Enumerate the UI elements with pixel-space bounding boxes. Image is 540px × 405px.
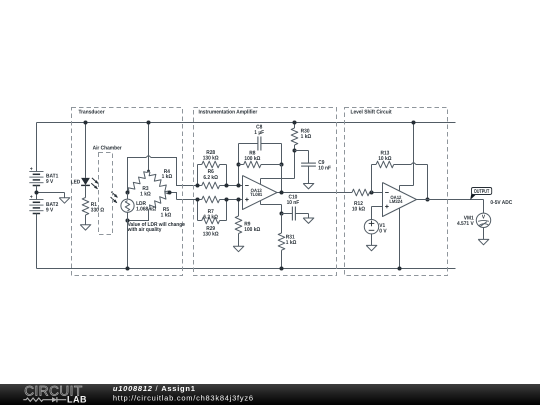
- svg-text:1 µF: 1 µF: [254, 130, 264, 136]
- svg-text:LED: LED: [71, 180, 81, 186]
- svg-text:100 kΩ: 100 kΩ: [244, 156, 261, 162]
- svg-text:http://circuitlab.com/ch83k84j: http://circuitlab.com/ch83k84j3fyz6: [113, 394, 254, 403]
- svg-text:130 kΩ: 130 kΩ: [203, 155, 220, 161]
- svg-text:1 kΩ: 1 kΩ: [162, 174, 173, 180]
- svg-text:+: +: [30, 195, 33, 201]
- svg-text:0 V: 0 V: [379, 229, 387, 235]
- svg-text:LM324: LM324: [389, 199, 402, 205]
- svg-text:Instrumentation Amplifier: Instrumentation Amplifier: [199, 110, 258, 116]
- svg-text:V: V: [482, 215, 486, 221]
- svg-text:0-5V ADC: 0-5V ADC: [490, 200, 512, 206]
- svg-text:1 kΩ: 1 kΩ: [286, 240, 297, 246]
- svg-text:1 kΩ: 1 kΩ: [140, 192, 151, 198]
- svg-text:Transducer: Transducer: [78, 110, 105, 116]
- svg-text:4.571 V: 4.571 V: [457, 221, 474, 227]
- svg-text:9 V: 9 V: [46, 179, 54, 185]
- svg-text:1 kΩ: 1 kΩ: [161, 213, 172, 219]
- svg-text:+: +: [30, 166, 33, 172]
- svg-text:with air quality: with air quality: [127, 227, 163, 233]
- svg-text:6.2 kΩ: 6.2 kΩ: [203, 215, 218, 221]
- svg-text:TL081: TL081: [250, 192, 262, 198]
- svg-text:u1008812 / Assign1: u1008812 / Assign1: [113, 384, 196, 393]
- svg-text:130 kΩ: 130 kΩ: [203, 231, 220, 237]
- svg-text:10 kΩ: 10 kΩ: [378, 156, 392, 162]
- svg-text:Air Chamber: Air Chamber: [93, 146, 123, 152]
- svg-text:1 kΩ: 1 kΩ: [301, 134, 312, 140]
- svg-text:Level Shift Circuit: Level Shift Circuit: [351, 110, 392, 116]
- svg-text:9 V: 9 V: [46, 207, 54, 213]
- svg-text:LAB: LAB: [67, 395, 87, 405]
- svg-text:10 nF: 10 nF: [318, 166, 331, 172]
- svg-text:1.068 kΩ: 1.068 kΩ: [136, 207, 157, 213]
- svg-text:OUTPUT: OUTPUT: [474, 189, 490, 195]
- svg-text:100 kΩ: 100 kΩ: [244, 227, 261, 233]
- svg-text:10 kΩ: 10 kΩ: [352, 206, 366, 212]
- svg-text:330 Ω: 330 Ω: [91, 208, 105, 214]
- svg-text:6.2 kΩ: 6.2 kΩ: [203, 175, 218, 181]
- svg-text:10 nF: 10 nF: [287, 200, 300, 206]
